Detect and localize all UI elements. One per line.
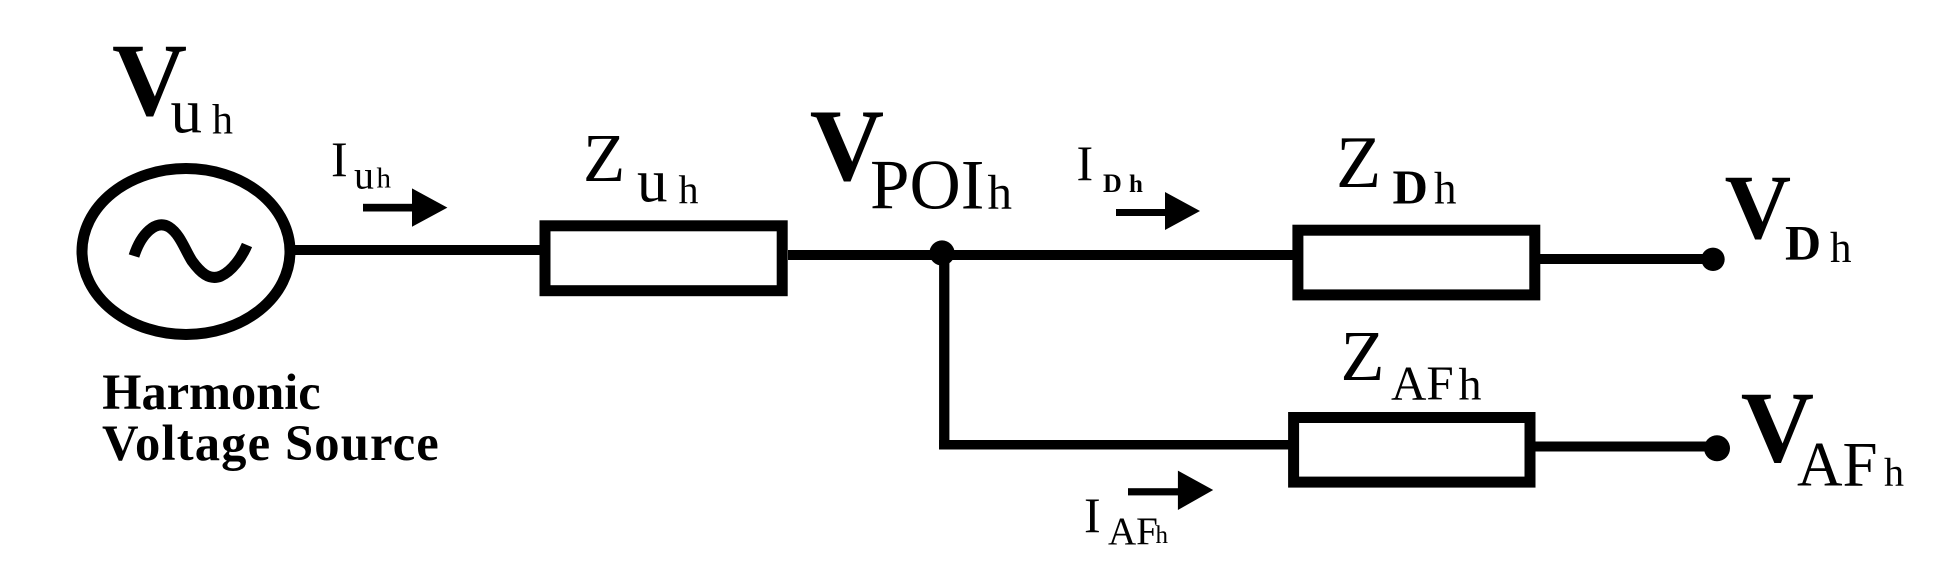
svg-text:D: D: [1103, 169, 1122, 198]
svg-text:D: D: [1393, 160, 1428, 215]
svg-text:Harmonic: Harmonic: [102, 364, 320, 420]
bottom branch wire: [939, 440, 1293, 450]
label I_Dh: [1077, 135, 1144, 198]
wire Z_uh to node to Z_Dh: [788, 250, 1298, 260]
svg-text:AF: AF: [1391, 355, 1454, 410]
label I_AFh: [1084, 487, 1169, 553]
svg-text:Voltage Source: Voltage Source: [102, 415, 440, 471]
svg-text:I: I: [1077, 135, 1094, 191]
sine wave inside source: [134, 225, 247, 278]
label Z_Dh: [1336, 122, 1457, 215]
svg-text:Z: Z: [1336, 122, 1381, 204]
svg-text:h: h: [1156, 522, 1169, 549]
wire source to Z_uh: [294, 245, 546, 255]
terminal dot V_Dh: [1701, 248, 1724, 271]
terminal dot V_AFh: [1704, 435, 1730, 461]
svg-text:h: h: [1129, 171, 1143, 198]
resistor Z_AFh box: [1294, 418, 1530, 483]
resistor Z_uh box: [545, 226, 782, 291]
vertical wire from node: [939, 253, 949, 450]
current arrow I_AFh: [1128, 488, 1188, 495]
svg-text:AF: AF: [1108, 510, 1158, 553]
svg-text:I: I: [1084, 487, 1101, 543]
label V_POIh: [810, 89, 1012, 225]
label Z_AFh: [1341, 316, 1482, 410]
current arrow I_Dh: [1116, 209, 1172, 216]
svg-text:h: h: [1830, 225, 1852, 272]
svg-text:I: I: [331, 131, 348, 187]
label Z_uh: [583, 120, 699, 215]
svg-text:h: h: [1884, 450, 1904, 495]
svg-text:V: V: [1725, 156, 1791, 258]
svg-text:u: u: [171, 76, 203, 146]
svg-text:h: h: [1459, 358, 1482, 409]
svg-text:D: D: [1785, 215, 1821, 271]
harmonic voltage source circle: [82, 169, 290, 335]
svg-text:AF: AF: [1797, 430, 1878, 500]
svg-text:h: h: [377, 163, 392, 195]
resistor Z_Dh box: [1298, 230, 1535, 295]
label Harmonic Voltage Source: [102, 364, 440, 471]
svg-text:Z: Z: [1341, 316, 1385, 396]
node POI junction dot: [929, 240, 954, 265]
svg-text:h: h: [988, 165, 1013, 220]
label V_AFh: [1741, 371, 1904, 499]
svg-text:u: u: [354, 152, 374, 197]
current arrow I_uh: [363, 204, 420, 212]
wire Z_Dh to terminal: [1540, 254, 1713, 264]
label V_uh: [112, 23, 233, 147]
svg-text:h: h: [679, 167, 699, 212]
label V_Dh: [1725, 156, 1852, 272]
svg-text:Z: Z: [583, 120, 625, 196]
label I_uh: [331, 131, 392, 197]
svg-text:POI: POI: [870, 147, 984, 225]
svg-text:h: h: [1434, 164, 1457, 214]
wire Z_AFh to terminal: [1535, 442, 1717, 452]
svg-text:h: h: [212, 98, 233, 144]
svg-text:u: u: [637, 149, 668, 216]
